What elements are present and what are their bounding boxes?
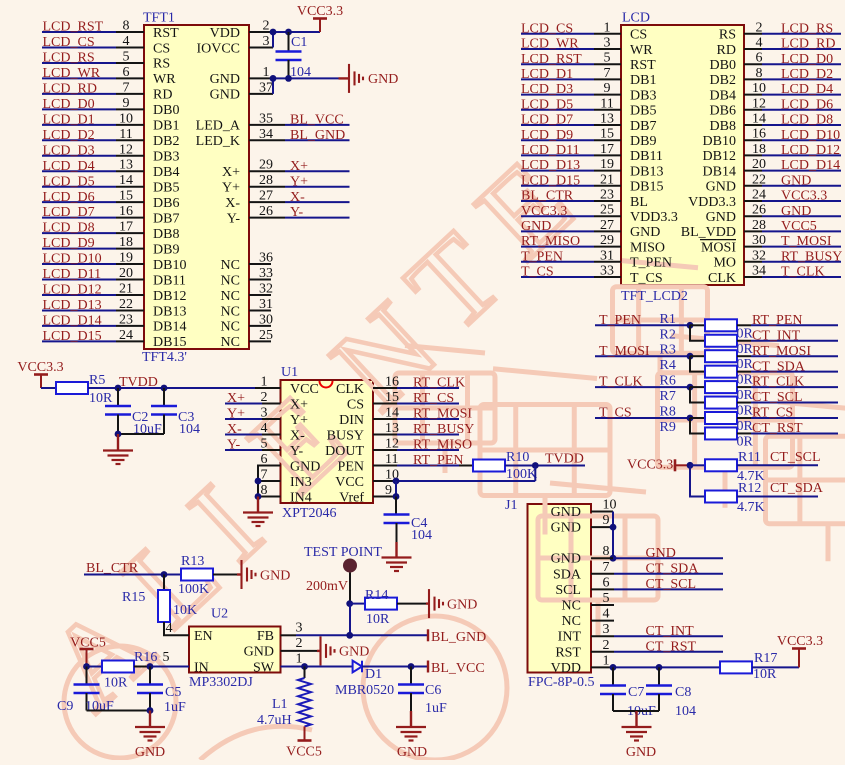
svg-text:9: 9 [603, 513, 610, 528]
label R10 [506, 450, 529, 465]
svg-text:NC: NC [221, 320, 240, 335]
node label X- [290, 190, 305, 205]
label R9 value 0R [737, 434, 754, 449]
svg-text:R1: R1 [660, 312, 676, 327]
wire U1 pin1 stub (TVDD) [255, 387, 281, 389]
label C8 value 104 [675, 704, 696, 719]
resistor R3 [705, 350, 737, 362]
node label CT_INT [752, 328, 801, 343]
wire net X- from TFT1 [249, 201, 350, 203]
svg-text:T_PEN: T_PEN [599, 313, 641, 328]
ground GND (C6) [396, 711, 427, 760]
svg-text:LCD_D3: LCD_D3 [43, 143, 95, 158]
svg-text:0R: 0R [737, 373, 754, 388]
svg-text:GND: GND [646, 546, 676, 561]
svg-text:U2: U2 [211, 607, 228, 622]
svg-text:LCD_RS: LCD_RS [781, 21, 833, 36]
wire net LCD_RD from LCD pin 4 [744, 48, 841, 50]
wire net LCD_D7 to TFT1 pin 16 [42, 217, 144, 219]
node label LCD_D4 [781, 82, 833, 97]
svg-text:6: 6 [603, 575, 610, 590]
svg-text:T_CLK: T_CLK [599, 375, 643, 390]
svg-text:X-: X- [225, 196, 240, 211]
svg-text:LCD_RD: LCD_RD [43, 81, 97, 96]
svg-text:CT_RST: CT_RST [752, 421, 803, 436]
node label LCD_D4 [43, 159, 95, 174]
svg-text:GND: GND [290, 459, 320, 474]
svg-text:CT_INT: CT_INT [752, 328, 801, 343]
wire net CT_SCL [737, 402, 838, 404]
label R13 value 100K [178, 582, 209, 597]
svg-text:LCD_D13: LCD_D13 [43, 298, 102, 313]
svg-text:LCD_D12: LCD_D12 [43, 283, 102, 298]
svg-text:DB6: DB6 [153, 196, 179, 211]
node label LCD_D0 [43, 97, 95, 112]
ground GND (R13) [237, 560, 290, 589]
capacitor C3 [151, 388, 177, 434]
wire net LCD_CS to LCD pin 1 [521, 33, 621, 35]
IC TFT1 left pin numbers [119, 19, 133, 343]
connector J1 part name FPC-8P-0.5 [528, 675, 595, 690]
svg-text:NC: NC [221, 273, 240, 288]
IC TFT1 body [144, 25, 249, 349]
node label LCD_D6 [43, 190, 95, 205]
node label VCC3.3 [521, 204, 567, 219]
capacitor C6 [398, 667, 424, 712]
node label LCD_D11 [43, 267, 102, 282]
node label Y+ (U1) [227, 407, 245, 422]
wire net RT_BUSY from LCD pin 32 [744, 261, 841, 263]
label R14 [365, 588, 388, 603]
node label CT_SDA (R12) [770, 481, 824, 496]
svg-text:7: 7 [603, 560, 610, 575]
node label LCD_D15 [43, 329, 102, 344]
wire net BL_GND (U2 FB) [281, 634, 429, 636]
svg-text:Vref: Vref [339, 490, 364, 505]
IC TFT1 right pin numbers [259, 19, 273, 343]
svg-text:VDD3.3: VDD3.3 [630, 210, 678, 225]
node label GND [521, 219, 551, 234]
svg-text:TVDD: TVDD [119, 375, 158, 390]
svg-text:DB1: DB1 [153, 119, 179, 134]
svg-text:100K: 100K [506, 467, 537, 482]
node label Y- (U1) [227, 438, 241, 453]
svg-text:R13: R13 [181, 554, 204, 569]
resistor R4 [705, 366, 737, 378]
wire net LCD_D2 to TFT1 pin 11 [42, 139, 144, 141]
svg-text:LCD_RS: LCD_RS [43, 51, 95, 66]
wire TFT1 pin2 VDD stub [249, 31, 273, 33]
svg-text:GND: GND [626, 745, 656, 760]
wire net LCD_D15 to TFT1 pin 24 [42, 340, 144, 342]
wire net T_PEN to LCD pin 31 [521, 261, 621, 263]
pin number 5 (U2 IN) [163, 650, 170, 665]
wire net T_CLK from LCD pin 34 [744, 276, 841, 278]
svg-text:DB6: DB6 [710, 104, 736, 119]
svg-text:0R: 0R [737, 434, 754, 449]
svg-text:RT_CS: RT_CS [413, 391, 454, 406]
svg-text:3: 3 [296, 620, 303, 635]
label R1 [660, 312, 676, 327]
wire net LCD_D4 from LCD pin 10 [744, 94, 841, 96]
label 200mV [306, 579, 348, 594]
wire net LCD_D12 to TFT1 pin 21 [42, 294, 144, 296]
node label LCD_D7 [521, 113, 573, 128]
wire net CT_SDA (J1) [591, 573, 723, 575]
svg-text:SW: SW [253, 660, 275, 675]
svg-text:BL_VCC: BL_VCC [431, 661, 485, 676]
label R1 value 0R [737, 326, 754, 341]
resistor R10 [473, 460, 505, 472]
node label T_CLK [781, 265, 825, 280]
svg-text:DB10: DB10 [153, 258, 186, 273]
svg-text:GND: GND [210, 72, 240, 87]
junction T_MOSI [687, 353, 694, 360]
wire net RT_CS [737, 417, 838, 419]
node label RT_CLK [752, 375, 804, 390]
svg-text:Y-: Y- [290, 205, 304, 220]
IC U1 left pin numbers [261, 375, 268, 499]
wire net LCD_D3 to LCD pin 9 [521, 94, 621, 96]
node label T_PEN [599, 313, 641, 328]
resistor R8 [705, 412, 737, 424]
label C1 [291, 35, 307, 50]
node label RT_BUSY [413, 422, 474, 437]
resistor R2 [705, 335, 737, 347]
wire net CT_SDA [737, 371, 838, 373]
svg-text:RS: RS [153, 57, 170, 72]
node label LCD_D14 [781, 158, 840, 173]
IC TFT1 part name TFT4.3 [142, 350, 187, 365]
svg-text:CT_RST: CT_RST [646, 639, 697, 654]
label R2 value 0R [737, 342, 754, 357]
label C7 [628, 685, 644, 700]
node label LCD_D2 [43, 128, 95, 143]
inductor L1 [298, 667, 311, 727]
wire VCC3.3 to R5 [41, 387, 56, 389]
wire U2 SW row [281, 666, 353, 668]
ground GND (right of TFT1) [339, 64, 399, 93]
wire TFT1 NC stub [249, 263, 271, 265]
junction U1 pin8 [255, 493, 262, 500]
svg-text:CT_SDA: CT_SDA [770, 481, 824, 496]
svg-text:DB9: DB9 [153, 242, 179, 257]
svg-text:LCD_D15: LCD_D15 [521, 173, 580, 188]
wire net GND from LCD pin 26 [744, 215, 841, 217]
svg-text:X+: X+ [290, 159, 308, 174]
junction T_CLK [687, 384, 694, 391]
svg-text:DB15: DB15 [153, 335, 186, 350]
svg-text:T_MOSI: T_MOSI [781, 234, 832, 249]
svg-text:DB5: DB5 [630, 104, 656, 119]
label R2 [660, 327, 676, 342]
svg-text:LCD_RST: LCD_RST [521, 52, 582, 67]
wire TFT1 pin1 GND [249, 77, 339, 79]
svg-text:LCD_D9: LCD_D9 [521, 128, 573, 143]
wire net BL_CTR to LCD pin 23 [521, 200, 621, 202]
svg-text:T_CLK: T_CLK [781, 265, 825, 280]
node label LCD_D8 [43, 221, 95, 236]
svg-text:RT_MOSI: RT_MOSI [413, 407, 472, 422]
junction pins 1-37 [270, 75, 277, 82]
node label LCD_D15 [521, 173, 580, 188]
wire jog to next row [690, 325, 705, 340]
svg-text:LED_A: LED_A [196, 119, 241, 134]
svg-text:T_PEN: T_PEN [521, 249, 563, 264]
capacitor C7 [600, 667, 626, 711]
wire net RT_MOSI [737, 355, 838, 357]
wire net LCD_D13 to LCD pin 19 [521, 170, 621, 172]
IC LCD designator [622, 11, 650, 26]
node label BL_VCC [290, 112, 344, 127]
wire R13 to ground [213, 574, 237, 576]
wire net RT_MISO to LCD pin 29 [521, 246, 621, 248]
node label LCD_RST [521, 52, 582, 67]
label R4 [660, 358, 676, 373]
junction BL_VCC/C6 [408, 663, 415, 670]
svg-text:1: 1 [296, 652, 303, 667]
label D1 part MBR0520 [335, 683, 394, 698]
wire R17 to VCC3.3 [752, 666, 799, 668]
test point [343, 559, 357, 573]
svg-text:DB3: DB3 [153, 150, 179, 165]
svg-text:RT_MOSI: RT_MOSI [752, 344, 811, 359]
node label GND [781, 173, 811, 188]
node label BL_CTR [86, 561, 139, 576]
wire net CT_SDA (R12) [737, 496, 818, 498]
svg-text:LCD_RST: LCD_RST [43, 20, 104, 35]
junction C1 bottom [285, 75, 292, 82]
svg-text:R7: R7 [660, 389, 676, 404]
svg-text:LCD_RD: LCD_RD [781, 37, 835, 52]
label C7 value 10uF [627, 704, 656, 719]
svg-text:LCD_D11: LCD_D11 [43, 267, 102, 282]
svg-text:8: 8 [603, 544, 610, 559]
power VCC5 (left) [70, 636, 106, 667]
wire net Y- to U1 pin 5 [225, 449, 281, 451]
resistor R13 [181, 569, 213, 581]
IC U2 part name MP3302DJ [189, 675, 253, 690]
wire net CT_INT (J1) [591, 635, 723, 637]
node label TVDD (R10) [545, 452, 584, 467]
wire C2-C3 bottom [118, 433, 164, 435]
svg-text:DB11: DB11 [153, 273, 186, 288]
label R4 value 0R [737, 373, 754, 388]
connector J1 pin names [551, 505, 582, 676]
junction pullups [687, 462, 694, 469]
label R3 [660, 343, 676, 358]
svg-text:CS: CS [153, 41, 170, 56]
svg-text:RST: RST [630, 58, 656, 73]
node label Y- [290, 205, 304, 220]
node label T_CLK [599, 375, 643, 390]
node label LCD_D1 [521, 67, 573, 82]
wire net LCD_D6 from LCD pin 12 [744, 109, 841, 111]
svg-text:DB14: DB14 [153, 320, 186, 335]
node label X- (U1) [227, 422, 242, 437]
wire net LCD_WR to LCD pin 3 [521, 48, 621, 50]
svg-text:GND: GND [521, 219, 551, 234]
wire R10 to TVDD [505, 465, 585, 467]
node label LCD_D6 [781, 97, 833, 112]
node label CT_SDA (J1) [646, 561, 700, 576]
wire net LCD_D9 to LCD pin 15 [521, 139, 621, 141]
svg-text:R12: R12 [738, 481, 761, 496]
svg-text:CLK: CLK [708, 271, 736, 286]
svg-text:CT_SCL: CT_SCL [646, 577, 697, 592]
svg-text:MISO: MISO [630, 240, 665, 255]
wire R14 to ground [397, 603, 426, 605]
svg-text:D1: D1 [365, 667, 382, 682]
svg-text:VDD: VDD [210, 26, 240, 41]
node label LCD_D14 [43, 314, 102, 329]
svg-text:10R: 10R [366, 612, 390, 627]
svg-text:T_MOSI: T_MOSI [599, 344, 650, 359]
node label LCD_CS [43, 35, 95, 50]
node label RT_MISO [521, 234, 580, 249]
svg-text:X-: X- [290, 428, 305, 443]
svg-text:LCD_D1: LCD_D1 [521, 67, 573, 82]
svg-text:RST: RST [153, 26, 179, 41]
diode D1 [353, 661, 362, 673]
node label RT_PEN [413, 453, 464, 468]
node label RT_MISO [413, 438, 472, 453]
svg-text:IN4: IN4 [290, 490, 312, 505]
label R11 value 4.7K [737, 469, 765, 484]
svg-text:VCC: VCC [335, 475, 364, 490]
node label X+ [290, 159, 308, 174]
svg-text:CT_SDA: CT_SDA [752, 359, 806, 374]
svg-text:4.7uH: 4.7uH [257, 713, 292, 728]
wire net LCD_D7 to LCD pin 13 [521, 124, 621, 126]
node label RT_CS [752, 406, 793, 421]
junction J1 pin8 [610, 555, 617, 562]
svg-text:IN3: IN3 [290, 475, 312, 490]
label R13 [181, 554, 204, 569]
node label RT_CS [413, 391, 454, 406]
resistor R17 [720, 661, 752, 673]
capacitor C8 [646, 667, 672, 711]
svg-text:J1: J1 [505, 498, 517, 513]
svg-text:LED_K: LED_K [196, 134, 240, 149]
svg-text:1uF: 1uF [425, 701, 447, 716]
svg-text:DB15: DB15 [630, 180, 663, 195]
svg-text:LCD_D2: LCD_D2 [781, 67, 833, 82]
svg-text:R17: R17 [754, 651, 777, 666]
svg-text:0R: 0R [737, 419, 754, 434]
svg-text:C9: C9 [57, 699, 73, 714]
node label LCD_D5 [43, 174, 95, 189]
wire net Y- from TFT1 [249, 217, 350, 219]
IC TFT1 left pin names [153, 26, 186, 350]
svg-text:NC: NC [562, 599, 581, 614]
svg-text:MBR0520: MBR0520 [335, 683, 394, 698]
svg-text:5: 5 [603, 591, 610, 606]
svg-text:FB: FB [257, 629, 274, 644]
svg-text:GND: GND [781, 204, 811, 219]
svg-text:2: 2 [603, 638, 610, 653]
junction VCC5/C9 [83, 663, 90, 670]
svg-text:DB12: DB12 [703, 149, 736, 164]
svg-text:X+: X+ [227, 391, 245, 406]
wire TFT1 NC stub [249, 294, 271, 296]
svg-text:NC: NC [221, 258, 240, 273]
IC U2 designator [211, 607, 228, 622]
svg-text:VDD3.3: VDD3.3 [688, 195, 736, 210]
wire net LCD_D1 to LCD pin 7 [521, 78, 621, 80]
IC TFT1 designator [143, 11, 175, 26]
svg-text:104: 104 [675, 704, 696, 719]
svg-text:0R: 0R [737, 342, 754, 357]
svg-text:X-: X- [227, 422, 242, 437]
junction J1 pin9 [610, 524, 617, 531]
svg-text:R4: R4 [660, 358, 676, 373]
IC TFT1 right pin names [196, 26, 241, 350]
svg-text:104: 104 [179, 422, 200, 437]
svg-text:LCD_D12: LCD_D12 [781, 143, 840, 158]
svg-text:R2: R2 [660, 327, 676, 342]
node label LCD_D7 [43, 205, 95, 220]
wire net CT_SCL (J1) [591, 588, 723, 590]
node label RT_MOSI [413, 407, 472, 422]
svg-text:LCD_D6: LCD_D6 [43, 190, 95, 205]
svg-text:DB12: DB12 [153, 289, 186, 304]
wire net T_PEN (resistor array) [595, 324, 690, 326]
svg-text:RT_CLK: RT_CLK [752, 375, 804, 390]
svg-text:GND: GND [551, 552, 581, 567]
node label CT_SCL (R11) [770, 450, 821, 465]
svg-text:VCC3.3: VCC3.3 [777, 634, 823, 649]
svg-text:1: 1 [603, 653, 610, 668]
power VCC5 (L1) [286, 727, 322, 760]
svg-text:RST: RST [555, 645, 581, 660]
label R17 [754, 651, 777, 666]
svg-text:GND: GND [447, 597, 477, 612]
svg-text:Y+: Y+ [222, 181, 240, 196]
label R5 value 10R [89, 391, 113, 406]
svg-text:DB7: DB7 [630, 119, 656, 134]
junction R16/C5 [147, 663, 154, 670]
IC U1 right pin numbers [385, 375, 399, 499]
resistor R15 [158, 575, 189, 636]
svg-text:WR: WR [630, 43, 653, 58]
wire net LCD_D9 to TFT1 pin 18 [42, 248, 144, 250]
wire jog to next row [690, 418, 705, 433]
node label TEST POINT [304, 545, 382, 560]
junction U1 pin7 [255, 478, 262, 485]
svg-text:INT: INT [558, 630, 582, 645]
svg-text:4: 4 [166, 621, 173, 636]
ground GND (C7/C8) [622, 711, 657, 760]
node label LCD_D13 [43, 298, 102, 313]
svg-text:X-: X- [290, 190, 305, 205]
label R6 value 0R [737, 388, 754, 403]
label C3 value 104 [179, 422, 200, 437]
wire net LCD_CS to TFT1 pin 4 [42, 46, 144, 48]
svg-text:DB14: DB14 [703, 164, 736, 179]
svg-text:GND: GND [706, 180, 736, 195]
label L1 value 4.7uH [257, 713, 292, 728]
svg-text:DB2: DB2 [153, 134, 179, 149]
svg-text:GND: GND [551, 521, 581, 536]
junction TVDD/pin10 [532, 462, 539, 469]
label R9 [660, 420, 676, 435]
svg-text:RT_MISO: RT_MISO [413, 438, 472, 453]
svg-text:GND: GND [339, 645, 369, 660]
wire to R12 [690, 465, 705, 496]
svg-text:LCD_D14: LCD_D14 [781, 158, 840, 173]
label R7 [660, 389, 676, 404]
